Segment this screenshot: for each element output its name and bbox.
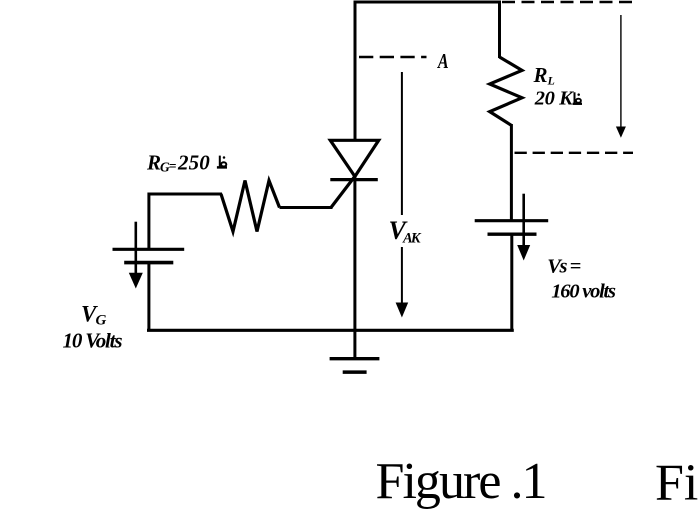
wire top horizontal (anode to RL branch) (354, 1, 502, 4)
battery VS polarity arrow (517, 194, 530, 261)
battery VS short plate (488, 232, 537, 235)
svg-text:=: = (169, 159, 177, 174)
wire gate horizontal (280, 206, 333, 209)
wire VG bottom vertical (147, 264, 150, 332)
wire anode vertical (354, 1, 357, 142)
wire VS bottom vertical (510, 235, 513, 332)
svg-text:Fi: Fi (655, 455, 698, 510)
thyristor cathode bar (330, 178, 378, 181)
node A label (437, 50, 449, 74)
resistor RG zigzag (221, 181, 280, 232)
label RL (533, 63, 555, 88)
dashed line mid right (cathode/VS level) (515, 152, 634, 154)
wire VG top vertical (147, 193, 150, 249)
battery VG long plate (113, 248, 185, 251)
svg-text:Vs =: Vs = (547, 256, 581, 278)
label RG = 250 Ohm (146, 151, 210, 175)
svg-text:250: 250 (177, 151, 210, 175)
arrow right (voltage span, thin) (616, 15, 626, 138)
wire RG left horizontal (148, 193, 222, 196)
dashed line top right (502, 1, 633, 4)
resistor RL zigzag (490, 57, 522, 125)
svg-text:L: L (547, 74, 555, 88)
svg-text:Figure .1: Figure .1 (376, 453, 548, 510)
svg-text:20 K: 20 K (534, 88, 574, 110)
wire cathode vertical down to ground (353, 176, 356, 359)
wire RL to VS battery (510, 124, 513, 220)
thyristor SCR triangle (anode) (330, 140, 378, 176)
omega glyph (Arabic zah) for RL value (573, 92, 582, 104)
omega glyph (Arabic zah) for RG value (217, 156, 227, 168)
svg-text:G: G (96, 313, 107, 329)
label VAK (389, 216, 422, 247)
wire bottom horizontal (147, 329, 514, 332)
arrow VAK (thin, with label gap) (396, 72, 409, 318)
battery VS long plate (475, 219, 549, 222)
svg-text:A: A (437, 50, 449, 74)
dashed line node A (359, 56, 427, 58)
ground bar 1 (330, 357, 380, 360)
svg-text:R: R (146, 151, 161, 175)
battery VG short plate (124, 261, 173, 265)
ground bar 2 (343, 370, 367, 374)
svg-text:160 volts: 160 volts (551, 281, 616, 303)
battery VG polarity arrow (129, 222, 143, 289)
thyristor gate diagonal (331, 176, 356, 208)
svg-text:AK: AK (402, 231, 422, 247)
wire RL top vertical (498, 1, 501, 59)
label VG (81, 302, 107, 329)
svg-text:10 Volts: 10 Volts (63, 329, 123, 353)
svg-text:R: R (533, 63, 548, 87)
